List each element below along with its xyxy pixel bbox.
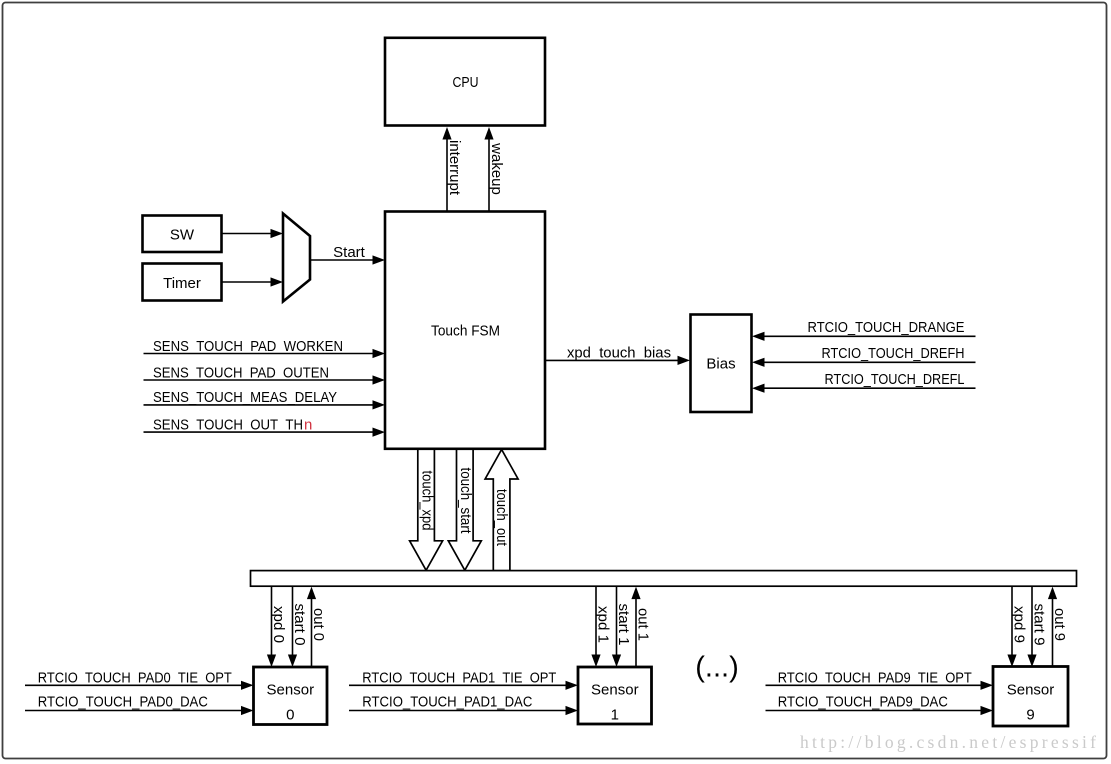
- svg-text:out 9: out 9: [1051, 608, 1068, 641]
- svg-text:start 1: start 1: [615, 604, 632, 646]
- svg-text:interrupt: interrupt: [446, 140, 463, 196]
- svg-text:CPU: CPU: [453, 74, 479, 91]
- svg-text:SENS_TOUCH_OUT_TH: SENS_TOUCH_OUT_TH: [153, 416, 303, 433]
- svg-text:out 1: out 1: [635, 608, 652, 641]
- svg-text:xpd 0: xpd 0: [270, 606, 287, 643]
- svg-text:RTCIO_TOUCH_DREFH: RTCIO_TOUCH_DREFH: [822, 345, 965, 362]
- svg-text:xpd 1: xpd 1: [595, 606, 612, 643]
- svg-text:SENS_TOUCH_PAD_WORKEN: SENS_TOUCH_PAD_WORKEN: [153, 338, 343, 355]
- svg-text:SENS_TOUCH_MEAS_DELAY: SENS_TOUCH_MEAS_DELAY: [153, 389, 337, 406]
- svg-text:RTCIO_TOUCH_PAD9_TIE_OPT: RTCIO_TOUCH_PAD9_TIE_OPT: [778, 669, 972, 686]
- svg-text:touch_out: touch_out: [493, 489, 510, 547]
- svg-text:Sensor: Sensor: [1007, 682, 1055, 699]
- svg-text:RTCIO_TOUCH_PAD0_DAC: RTCIO_TOUCH_PAD0_DAC: [38, 693, 208, 710]
- svg-text:Bias: Bias: [706, 356, 735, 373]
- svg-text:RTCIO_TOUCH_PAD9_DAC: RTCIO_TOUCH_PAD9_DAC: [778, 693, 948, 710]
- svg-text:RTCIO_TOUCH_PAD0_TIE_OPT: RTCIO_TOUCH_PAD0_TIE_OPT: [38, 669, 232, 686]
- svg-text:RTCIO_TOUCH_DRANGE: RTCIO_TOUCH_DRANGE: [808, 319, 965, 336]
- svg-text:Timer: Timer: [163, 275, 201, 292]
- svg-text:Sensor: Sensor: [267, 682, 315, 699]
- svg-text:Sensor: Sensor: [591, 682, 639, 699]
- svg-text:start 0: start 0: [291, 604, 308, 646]
- svg-text:RTCIO_TOUCH_DREFL: RTCIO_TOUCH_DREFL: [825, 371, 965, 388]
- svg-text:xpd 9: xpd 9: [1011, 606, 1028, 643]
- svg-text:1: 1: [611, 707, 619, 724]
- svg-text:SENS_TOUCH_PAD_OUTEN: SENS_TOUCH_PAD_OUTEN: [153, 364, 329, 381]
- svg-text:RTCIO_TOUCH_PAD1_TIE_OPT: RTCIO_TOUCH_PAD1_TIE_OPT: [362, 669, 556, 686]
- svg-text:xpd_touch_bias: xpd_touch_bias: [567, 345, 671, 362]
- svg-text:touch_xpd: touch_xpd: [419, 471, 436, 531]
- svg-text:9: 9: [1026, 707, 1034, 724]
- svg-text:0: 0: [286, 707, 294, 724]
- svg-text:n: n: [304, 416, 312, 433]
- svg-text:wakeup: wakeup: [488, 142, 505, 195]
- svg-text:start 9: start 9: [1031, 604, 1048, 646]
- svg-text:Start: Start: [333, 244, 366, 261]
- svg-text:out 0: out 0: [310, 608, 327, 641]
- svg-text:RTCIO_TOUCH_PAD1_DAC: RTCIO_TOUCH_PAD1_DAC: [362, 693, 532, 710]
- svg-text:SW: SW: [170, 227, 195, 244]
- svg-text:touch_start: touch_start: [457, 468, 474, 535]
- svg-text:(...): (...): [695, 652, 739, 684]
- svg-text:Touch FSM: Touch FSM: [431, 323, 500, 340]
